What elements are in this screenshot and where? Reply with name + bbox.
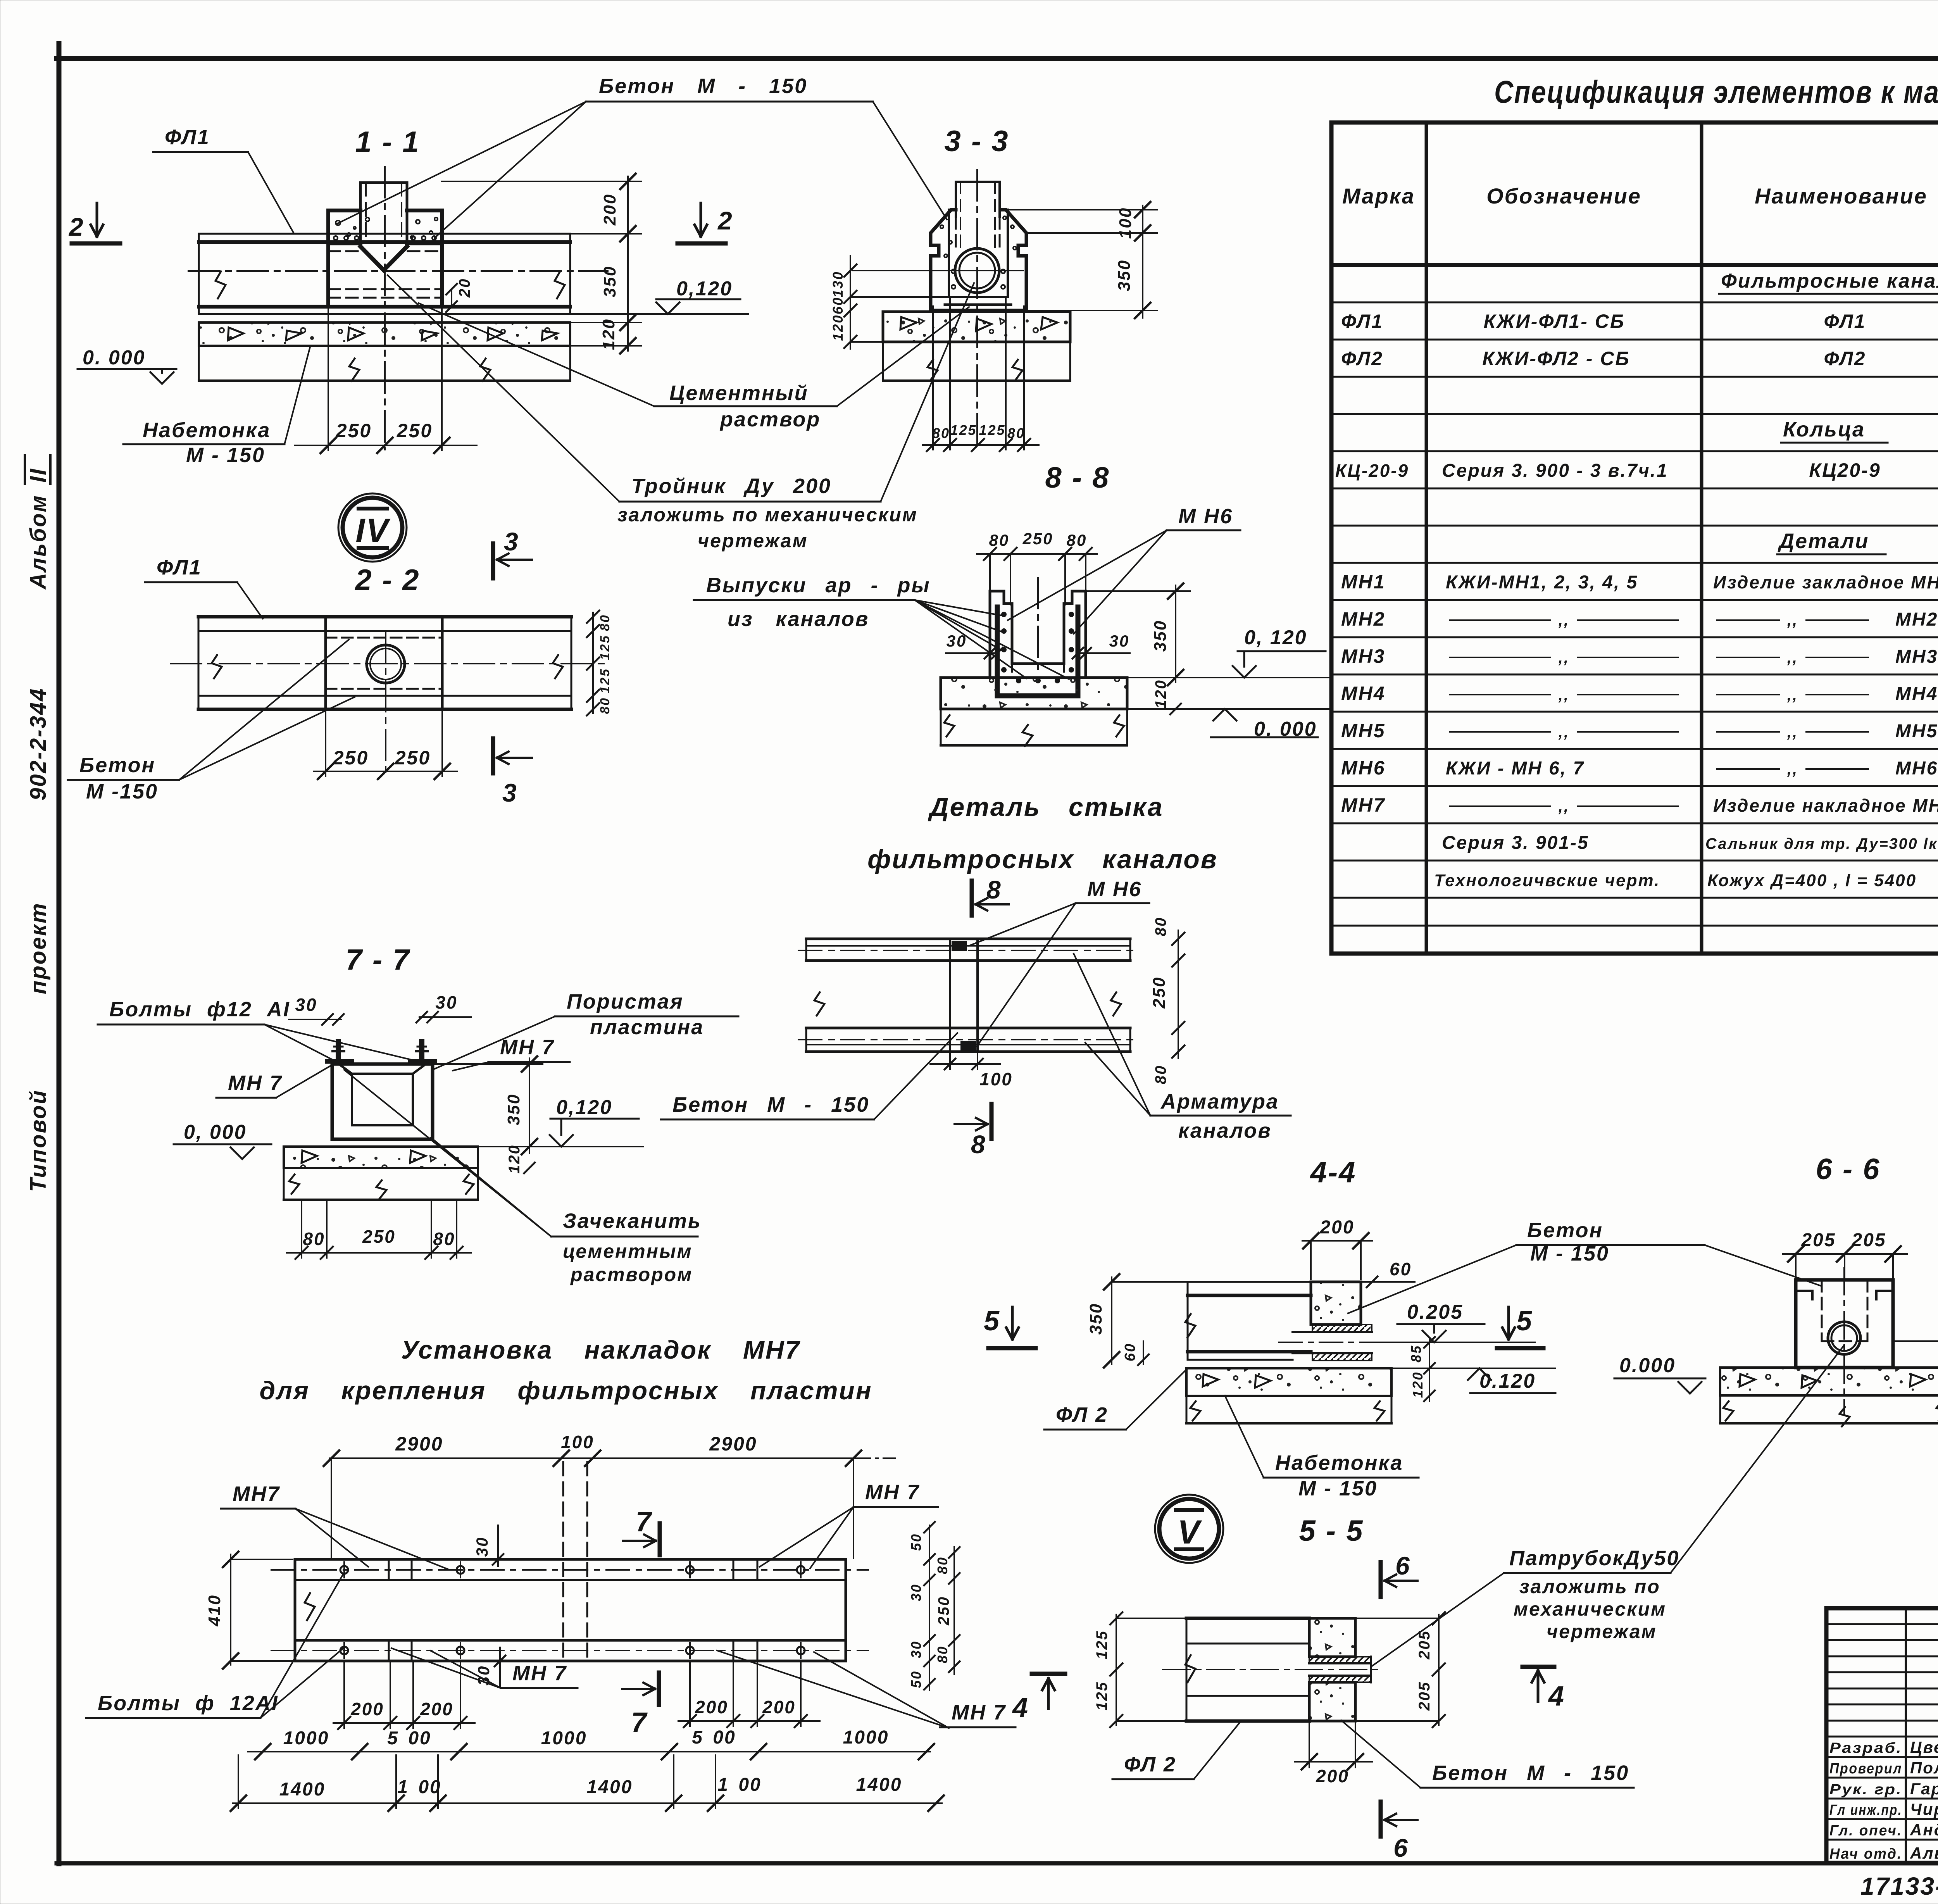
svg-text:0.000: 0.000 [1619, 1354, 1676, 1377]
node marker V circle [1155, 1495, 1223, 1563]
svg-text:120: 120 [1410, 1371, 1426, 1398]
title block frame [1826, 1608, 1938, 1863]
detail title Деталь стыка фильтросных каналов [867, 792, 1218, 874]
svg-text:80: 80 [598, 614, 612, 631]
section cut mark 8 (lower) [955, 1104, 991, 1159]
section 8-8 МН6 liner (thick) [997, 607, 1078, 696]
section cut mark 4 (5-5 left) [1012, 1674, 1065, 1723]
svg-text:1000: 1000 [541, 1728, 587, 1749]
svg-text:Альтшуллер: Альтшуллер [1910, 1844, 1938, 1862]
svg-text:Детали: Детали [1778, 529, 1869, 553]
label Болты ф12АІ (plan) [86, 1574, 343, 1718]
svg-text:М -150: М -150 [86, 780, 158, 803]
svg-text:120: 120 [1152, 679, 1169, 709]
svg-text:МН7: МН7 [233, 1482, 280, 1506]
svg-text:200: 200 [420, 1699, 453, 1719]
svg-text:МН5: МН5 [1341, 720, 1386, 742]
svg-text:II: II [26, 468, 51, 483]
svg-text:250: 250 [935, 1596, 952, 1626]
node marker IV circle [338, 493, 407, 562]
section 7-7 title [345, 943, 410, 976]
plan bottom dimensions 1000 500 1000 500 1000 [248, 1727, 934, 1759]
svg-text:200: 200 [600, 193, 619, 226]
svg-text:250: 250 [395, 747, 431, 769]
svg-text:5: 5 [1516, 1306, 1533, 1337]
section cut mark 3 (upper) [493, 527, 532, 578]
left margin vertical stamp text [25, 455, 51, 1192]
svg-text:Наименование: Наименование [1755, 184, 1928, 208]
section cut mark 4 (5-5 right) [1522, 1667, 1565, 1712]
svg-text:80: 80 [598, 697, 612, 714]
svg-text:8: 8 [986, 875, 1002, 904]
svg-text:410: 410 [205, 1594, 224, 1626]
section 1-1 concrete encasement block [328, 210, 442, 307]
label Набетонка М-150 (4-4) [1225, 1395, 1419, 1500]
svg-text:Кожух Д=400 , l = 5400: Кожух Д=400 , l = 5400 [1707, 871, 1917, 890]
svg-text:ФЛ 2: ФЛ 2 [1056, 1403, 1108, 1426]
svg-text:3 - 3: 3 - 3 [944, 125, 1009, 158]
svg-text:125: 125 [1093, 1630, 1110, 1659]
svg-text:350: 350 [1086, 1303, 1105, 1335]
svg-text:Бетон: Бетон [79, 754, 155, 777]
svg-text:250: 250 [336, 420, 372, 442]
section 4-4 level 0.205 [1372, 1301, 1535, 1342]
title block signature rows [1829, 1738, 1938, 1862]
plan dimension 30 (lower) [474, 1647, 505, 1686]
svg-text:30: 30 [473, 1537, 491, 1557]
svg-text:Спецификация элементов к ма: Спецификация элементов к маркировочной с… [1494, 74, 1938, 110]
svg-text:80: 80 [1152, 1065, 1169, 1085]
section 6-6 level 0.000 [1614, 1354, 1705, 1394]
section 8-8 channel walls [990, 578, 1086, 678]
svg-text:0.205: 0.205 [1407, 1301, 1463, 1323]
svg-text:Бетон М - 150: Бетон М - 150 [599, 74, 807, 98]
section cut mark 7 (upper) [623, 1506, 660, 1555]
svg-text:,,: ,, [1787, 649, 1798, 666]
svg-text:Типовой: Типовой [26, 1089, 51, 1192]
svg-text:Гарбуз: Гарбуз [1910, 1780, 1938, 1798]
plan dimensions 200 200 (left and right) [333, 1663, 820, 1729]
label МН7 left (7-7) [216, 1066, 330, 1098]
svg-text:ФЛ 2: ФЛ 2 [1124, 1753, 1176, 1776]
svg-text:Болты ф 12АІ: Болты ф 12АІ [98, 1692, 279, 1715]
svg-text:4: 4 [1012, 1692, 1029, 1723]
svg-text:0, 120: 0, 120 [1244, 626, 1307, 649]
svg-text:М - 150: М - 150 [1298, 1477, 1378, 1500]
section cut mark 6 (upper) [1381, 1551, 1417, 1597]
section 8-8 dimension 350 [1086, 583, 1190, 685]
svg-text:20: 20 [456, 278, 473, 298]
svg-text:2 - 2: 2 - 2 [354, 564, 420, 597]
joint plan dimension 100 [930, 1052, 1013, 1089]
svg-text:100: 100 [1116, 207, 1135, 239]
svg-text:80: 80 [1007, 425, 1025, 441]
svg-text:80: 80 [989, 531, 1010, 549]
section 2-2 bottom dimension 250 250 [314, 709, 457, 779]
svg-text:200: 200 [762, 1697, 796, 1717]
svg-text:80: 80 [1067, 531, 1087, 549]
label Бетон М-150 (section 2-2) [68, 640, 355, 803]
svg-text:КЖИ-МН1, 2, 3, 4, 5: КЖИ-МН1, 2, 3, 4, 5 [1446, 572, 1638, 593]
section 4-4 dimension 200 [1302, 1217, 1372, 1279]
svg-text:Проверил: Проверил [1829, 1761, 1902, 1777]
section 5-5 dimension 200 [1295, 1722, 1372, 1786]
svg-text:заложить по: заложить по [1519, 1576, 1660, 1597]
svg-text:205: 205 [1801, 1230, 1836, 1250]
svg-text:М Н6: М Н6 [1178, 505, 1233, 528]
svg-text:7 - 7: 7 - 7 [345, 943, 410, 976]
svg-text:Тройник Ду 200: Тройник Ду 200 [631, 474, 831, 498]
section 1-1 dimension 20 [446, 278, 473, 312]
label ФЛ1 (section 2-2) [145, 556, 263, 619]
svg-text:МН6: МН6 [1341, 757, 1386, 779]
svg-text:6: 6 [1395, 1551, 1411, 1580]
svg-text:4: 4 [1548, 1681, 1565, 1712]
svg-text:,,: ,, [1558, 649, 1569, 666]
svg-text:Пористая: Пористая [567, 990, 684, 1013]
label Тройник Ду 200 [388, 275, 974, 552]
table body texts [1335, 270, 1938, 890]
svg-text:КЖИ - МН 6, 7: КЖИ - МН 6, 7 [1446, 758, 1585, 779]
svg-text:125: 125 [979, 422, 1005, 438]
section 7-7 dimension 30 30 [289, 992, 471, 1025]
svg-text:Набетонка: Набетонка [143, 419, 271, 442]
svg-text:Изделие закладное МН1: Изделие закладное МН1 [1713, 572, 1938, 592]
section 6-6 blinding strip [1720, 1368, 1938, 1426]
svg-text:Зачеканить: Зачеканить [563, 1209, 702, 1233]
svg-text:200: 200 [695, 1697, 728, 1717]
bottom archive number 17133-02 70 [1860, 1872, 1938, 1900]
svg-text:каналов: каналов [1178, 1119, 1272, 1142]
section 4-4 slab ФЛ2 [1185, 1282, 1311, 1360]
section 6-6 title [1816, 1153, 1880, 1186]
label Цементный раствор [419, 303, 969, 431]
svg-text:проект: проект [26, 902, 51, 994]
svg-text:350: 350 [600, 266, 619, 297]
label Бетон М-150 (5-5) [1341, 1720, 1634, 1788]
svg-text:Изделие накладное МН7: Изделие накладное МН7 [1713, 795, 1938, 816]
section 2-2 right dimension chain 80 125 125 80 [587, 611, 612, 716]
section cut mark 3 (lower) [493, 738, 532, 807]
svg-text:0. 000: 0. 000 [83, 347, 146, 369]
svg-text:Разраб.: Разраб. [1829, 1740, 1902, 1756]
label ФЛ2 (4-4) [1044, 1369, 1187, 1430]
section 1-1 tee pipe Ду200 [360, 167, 407, 450]
svg-text:80: 80 [935, 1645, 950, 1663]
svg-text:Деталь стыка: Деталь стыка [928, 792, 1163, 822]
svg-text:МН 7: МН 7 [228, 1071, 283, 1095]
label МН7 bottom-right [717, 1650, 1016, 1728]
section 8-8 base slab [941, 678, 1127, 746]
svg-text:7: 7 [636, 1506, 652, 1537]
section 7-7 blinding strip [284, 1147, 478, 1200]
section 8-8 dimension 120 [1152, 679, 1181, 714]
label Бетон М-150 (4-4 and 6-6) [1348, 1219, 1822, 1313]
svg-text:ФЛ2: ФЛ2 [1824, 348, 1866, 369]
section 1-1 blinding concrete strip [199, 323, 570, 381]
svg-text:Чирков: Чирков [1910, 1800, 1938, 1818]
svg-text:7: 7 [631, 1707, 648, 1738]
label Бетон М-150 (near 8-8 base) [0, 0, 0, 0]
section 6-6 level 0.205 [1893, 1301, 1938, 1341]
section 5-5 title [1299, 1514, 1364, 1547]
section 8-8 dimension 30 30 [946, 632, 1130, 659]
label Патрубок Ду50 заложить по механическим чертежам [1371, 1345, 1844, 1667]
svg-text:5: 5 [984, 1306, 1000, 1337]
label Арматура каналов [1074, 954, 1291, 1142]
svg-text:Серия 3. 901-5: Серия 3. 901-5 [1442, 833, 1589, 853]
svg-text:30: 30 [295, 995, 317, 1015]
section 3-3 vertical pipe [956, 170, 1000, 450]
section 4-4 dimension 350 60 [1086, 1274, 1186, 1368]
svg-text:1400: 1400 [856, 1775, 902, 1795]
svg-text:0.120: 0.120 [1479, 1370, 1536, 1392]
svg-text:МН 7: МН 7 [512, 1662, 567, 1685]
svg-text:60: 60 [830, 297, 846, 314]
svg-text:5 00: 5 00 [387, 1728, 431, 1749]
section 7-7 dimension 350 [435, 1056, 543, 1154]
svg-text:КЦ20-9: КЦ20-9 [1809, 459, 1881, 481]
section 5-5 right dimension 205 205 [1355, 1612, 1445, 1727]
svg-text:чертежам: чертежам [698, 530, 808, 552]
svg-text:350: 350 [1151, 620, 1170, 652]
joint plan right dimension 80 250 80 [1150, 917, 1185, 1085]
svg-text:М Н6: М Н6 [1087, 878, 1142, 901]
specification table grid [1331, 122, 1938, 954]
section 2-2 slab plan [171, 617, 605, 709]
svg-text:205: 205 [1416, 1630, 1433, 1660]
section 1-1 right dimension chain 200 350 120 [442, 174, 641, 354]
svg-text:30: 30 [908, 1640, 924, 1658]
plan bar of МН7 straps [271, 1462, 868, 1661]
label МН6 (section 8-8) [1008, 505, 1240, 634]
svg-text:0, 000: 0, 000 [184, 1121, 247, 1143]
section 3-3 pedestal block [931, 210, 1026, 310]
svg-text:фильтросных каналов: фильтросных каналов [867, 845, 1218, 874]
svg-text:125: 125 [598, 635, 612, 660]
label Зачеканить цементным раствором [344, 1070, 702, 1285]
section 6-6 block [1796, 1268, 1893, 1415]
section 2-2 title [354, 564, 420, 597]
section 8-8 rebar dots [1001, 612, 1074, 683]
svg-text:,,: ,, [1558, 686, 1569, 704]
svg-text:250: 250 [1022, 529, 1053, 548]
svg-text:пластина: пластина [590, 1016, 704, 1039]
label Выпуски ар-ры из каналов [694, 574, 1069, 679]
label Набетонка М-150 [123, 347, 310, 467]
svg-text:80: 80 [433, 1229, 455, 1249]
svg-text:МН2: МН2 [1895, 609, 1938, 630]
section 3-3 pipe socket circle [853, 248, 1023, 293]
section 1-1 level mark 0,120 [570, 278, 748, 314]
svg-text:6 - 6: 6 - 6 [1816, 1153, 1880, 1186]
svg-text:1 00: 1 00 [717, 1775, 761, 1795]
svg-text:раствором: раствором [570, 1264, 693, 1285]
svg-text:1 - 1: 1 - 1 [355, 126, 420, 159]
svg-text:Цветкова: Цветкова [1910, 1738, 1938, 1756]
svg-text:205: 205 [1851, 1230, 1886, 1250]
joint plan channel strips [798, 939, 1140, 1052]
svg-text:2: 2 [68, 212, 84, 241]
svg-text:МН2: МН2 [1341, 608, 1386, 630]
section 4-4 dimensions 85 120 [1408, 1337, 1435, 1401]
svg-text:Кольца: Кольца [1783, 418, 1865, 441]
label ФЛ2 (5-5) [1112, 1722, 1240, 1779]
section 1-1 title [355, 126, 420, 159]
section 3-3 right dimension chain 100 350 [1006, 202, 1157, 318]
label МН7 top-left [221, 1482, 448, 1569]
specification table title [1494, 74, 1938, 110]
section 7-7 level 0.000 [174, 1121, 271, 1159]
svg-text:8: 8 [971, 1130, 986, 1159]
svg-text:80: 80 [932, 425, 950, 441]
svg-text:механическим: механическим [1514, 1598, 1666, 1620]
svg-text:IV: IV [355, 512, 391, 549]
svg-text:200: 200 [350, 1699, 384, 1719]
svg-text:Альбом: Альбом [26, 494, 51, 590]
section 8-8 top dimension 80 250 80 [977, 529, 1097, 605]
svg-text:250: 250 [397, 420, 433, 442]
label Болты ф12 АІ (7-7) [98, 998, 418, 1061]
svg-text:8 - 8: 8 - 8 [1045, 461, 1110, 494]
section 5-5 left dimension 125 125 [1093, 1612, 1185, 1727]
svg-text:125: 125 [950, 422, 977, 438]
section 6-6 dimension 205 205 [1783, 1230, 1907, 1279]
section 7-7 dimension 120 [506, 1144, 535, 1174]
svg-text:125: 125 [1093, 1681, 1110, 1711]
svg-text:Гл. опеч.: Гл. опеч. [1829, 1823, 1902, 1839]
svg-text:Марка: Марка [1342, 184, 1415, 208]
svg-text:Установка накладок МН7: Установка накладок МН7 [401, 1335, 801, 1364]
svg-text:Выпуски ар - ры: Выпуски ар - ры [706, 574, 931, 597]
section 8-8 title [1045, 461, 1110, 494]
svg-text:100: 100 [979, 1069, 1013, 1089]
svg-text:902-2-344: 902-2-344 [26, 688, 51, 800]
svg-text:Бетон М - 150: Бетон М - 150 [672, 1093, 869, 1116]
svg-text:1400: 1400 [279, 1779, 326, 1800]
svg-text:2900: 2900 [709, 1433, 757, 1455]
svg-text:2: 2 [717, 206, 733, 235]
svg-text:МН3: МН3 [1895, 647, 1938, 667]
table header texts [1342, 132, 1938, 260]
svg-text:125: 125 [598, 668, 612, 693]
svg-text:Серия 3. 900 - 3 в.7ч.1: Серия 3. 900 - 3 в.7ч.1 [1442, 460, 1668, 481]
section 4-4 dimension 60 (top right) [1361, 1259, 1415, 1287]
svg-text:Рук. гр.: Рук. гр. [1829, 1782, 1902, 1798]
section 7-7 bolts and plates МН7 [328, 1042, 435, 1061]
label МН7 right (7-7) [453, 1036, 570, 1071]
svg-text:130: 130 [830, 271, 846, 297]
plan dimension 30 (upper) [473, 1525, 503, 1566]
svg-text:200: 200 [1319, 1217, 1354, 1238]
svg-text:1000: 1000 [283, 1728, 329, 1749]
plan top dimension 2900 100 2900 [324, 1432, 899, 1558]
svg-text:КЖИ-ФЛ1- СБ: КЖИ-ФЛ1- СБ [1484, 310, 1625, 332]
svg-text:60: 60 [1390, 1259, 1412, 1279]
svg-text:Сальник для тр. Ду=300 lк=200: Сальник для тр. Ду=300 lк=200 [1705, 835, 1938, 852]
svg-text:МН6: МН6 [1895, 758, 1938, 779]
svg-text:80: 80 [935, 1556, 950, 1574]
section 1-1 bottom dimension 250 250 [295, 307, 477, 453]
label ФЛ1 (section 1-1) [153, 126, 293, 233]
svg-text:ФЛ1: ФЛ1 [1341, 310, 1383, 332]
svg-text:заложить по механическим: заложить по механическим [617, 504, 918, 526]
section 4-4 concrete block [1279, 1282, 1380, 1361]
svg-text:ПатрубокДу50: ПатрубокДу50 [1509, 1547, 1679, 1570]
svg-text:МН 7: МН 7 [500, 1036, 555, 1059]
section 7-7 channel block [332, 1064, 433, 1139]
svg-text:Андрианов: Андрианов [1910, 1821, 1938, 1839]
svg-text:МН4: МН4 [1341, 683, 1386, 704]
svg-text:Обозначение: Обозначение [1486, 184, 1641, 208]
svg-text:ФЛ1: ФЛ1 [157, 556, 202, 579]
svg-text:5 - 5: 5 - 5 [1299, 1514, 1364, 1547]
svg-text:КЦ-20-9: КЦ-20-9 [1335, 460, 1409, 481]
label МН7 top-right [760, 1481, 938, 1568]
svg-text:250: 250 [1150, 976, 1169, 1009]
section 2-2 encasement block plan [326, 617, 442, 775]
section 7-7 level 0,120 [433, 1096, 643, 1147]
section cut mark 8 (upper) [972, 875, 1009, 916]
svg-text:3: 3 [502, 778, 518, 807]
svg-text:205: 205 [1416, 1681, 1433, 1711]
svg-text:Цементный: Цементный [669, 381, 809, 405]
svg-text:,,: ,, [1558, 798, 1569, 815]
section cut mark 2 (right) [678, 203, 733, 243]
section 3-3 title [944, 125, 1009, 158]
section 3-3 blinding slab [883, 312, 1070, 381]
svg-text:ФЛ1: ФЛ1 [1824, 310, 1866, 332]
svg-text:30: 30 [908, 1583, 924, 1601]
joint vertical lines and МН6 plates [950, 939, 978, 1052]
svg-text:Бетон: Бетон [1527, 1219, 1603, 1242]
svg-text:Нач отд.: Нач отд. [1829, 1846, 1902, 1862]
svg-text:50: 50 [908, 1670, 924, 1688]
section cut mark 7 (lower) [622, 1673, 659, 1738]
svg-text:МН7: МН7 [1341, 794, 1386, 816]
label Бетон М-150 (joint plan) [661, 1033, 957, 1119]
section 3-3 left dimension chain 130 60 120 [830, 256, 949, 349]
svg-text:чертежам: чертежам [1547, 1621, 1657, 1642]
svg-text:30: 30 [1109, 632, 1130, 650]
svg-text:МН3: МН3 [1341, 645, 1386, 667]
label Пористая пластина [434, 990, 738, 1069]
plan dimension 410 [205, 1552, 293, 1669]
section 1-1 foundation slab ФЛ1 [188, 234, 608, 314]
svg-text:3: 3 [504, 527, 519, 556]
svg-text:Болты ф12 АІ: Болты ф12 АІ [109, 998, 290, 1021]
plan right dimension stack 50 80 30 250 30 80 50 [908, 1522, 960, 1690]
svg-text:120: 120 [506, 1144, 523, 1174]
svg-text:1400: 1400 [587, 1777, 633, 1797]
svg-text:из каналов: из каналов [728, 607, 869, 631]
svg-text:Фильтросные каналы: Фильтросные каналы [1721, 270, 1938, 292]
svg-text:4-4: 4-4 [1310, 1156, 1357, 1189]
svg-text:80: 80 [303, 1229, 325, 1249]
section cut mark 2 (left) [68, 203, 120, 243]
svg-text:МН 7: МН 7 [865, 1481, 920, 1504]
svg-text:120: 120 [599, 318, 618, 350]
plan bottom dimensions 1400 100 1400 100 1400 [231, 1755, 944, 1811]
svg-text:КЖИ-ФЛ2 - СБ: КЖИ-ФЛ2 - СБ [1482, 348, 1630, 369]
svg-text:,,: ,, [1787, 724, 1798, 741]
svg-text:МН4: МН4 [1895, 684, 1938, 704]
section 1-1 level mark 0.000 [78, 347, 176, 384]
section cut mark 6 (lower) [1381, 1802, 1417, 1862]
svg-text:цементным: цементным [563, 1240, 693, 1262]
plan title Установка накладок МН7 [259, 1335, 872, 1405]
svg-text:,,: ,, [1787, 612, 1798, 629]
